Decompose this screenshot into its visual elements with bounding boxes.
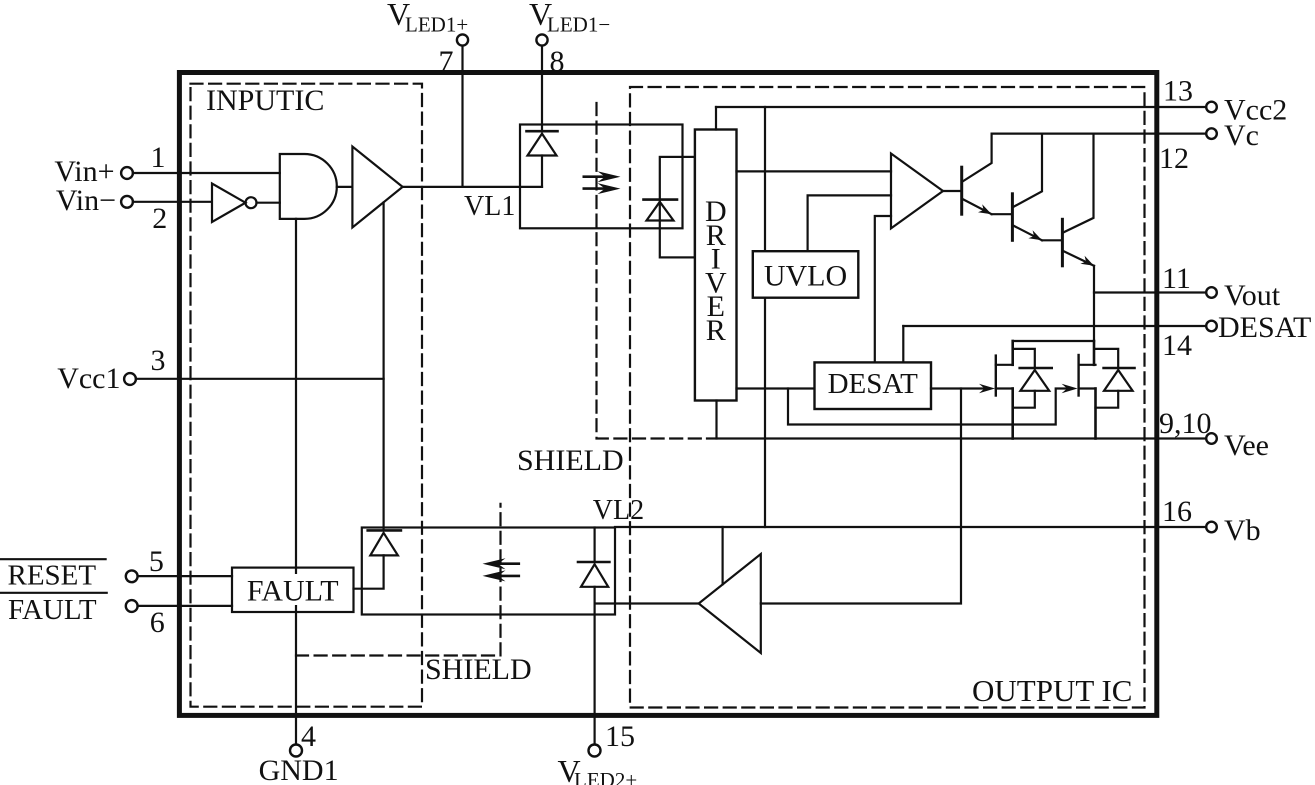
label Vin- bbox=[56, 184, 116, 217]
label pin number 4 bbox=[301, 720, 316, 753]
svg-text:LED1+: LED1+ bbox=[405, 13, 468, 37]
label pin number 16 bbox=[1162, 495, 1192, 528]
label pin number 7 bbox=[439, 45, 454, 78]
wire UVLO second input bbox=[808, 195, 891, 251]
package case outline bbox=[179, 73, 1156, 716]
wire Vcc1 net bbox=[136, 378, 384, 380]
svg-text:6: 6 bbox=[150, 606, 165, 639]
label Vb bbox=[1224, 514, 1261, 547]
wire Vb rail bbox=[615, 526, 1205, 528]
svg-text:14: 14 bbox=[1162, 329, 1192, 362]
wire Vout pin line bbox=[1094, 291, 1205, 293]
svg-text:R: R bbox=[706, 314, 726, 347]
label FAULT with overline bbox=[0, 593, 107, 626]
svg-text:DESAT: DESAT bbox=[828, 368, 919, 400]
wire buffer tap down to LED2 bbox=[383, 203, 385, 531]
light arrow 4 bbox=[483, 570, 519, 581]
wire Vcc2 drop to UVLO bbox=[764, 107, 766, 251]
wire Vc bus bbox=[992, 133, 1205, 135]
wire pin8 VLED1- down to LED1 cathode bbox=[541, 46, 543, 132]
svg-text:9,10: 9,10 bbox=[1159, 407, 1212, 440]
wire gate loop to M2 bbox=[788, 384, 1078, 425]
optocoupler 1 body bbox=[520, 125, 683, 229]
svg-text:1: 1 bbox=[151, 141, 166, 174]
amp U4 bbox=[891, 154, 943, 229]
AND gate U1 bbox=[280, 154, 337, 219]
pin 11 terminal bbox=[1206, 287, 1217, 298]
LED D5 bbox=[368, 530, 401, 555]
svg-text:INPUTIC: INPUTIC bbox=[206, 84, 324, 117]
pin 4 terminal bbox=[290, 745, 302, 757]
wire driver output to amp bbox=[737, 170, 892, 172]
label pin number 3 bbox=[151, 344, 166, 377]
label RESET with overline bbox=[0, 559, 106, 591]
svg-text:Vin−: Vin− bbox=[56, 184, 116, 217]
svg-text:OUTPUT IC: OUTPUT IC bbox=[972, 673, 1132, 708]
OUTPUT IC dashed boundary bbox=[630, 87, 1145, 708]
LED D1 bbox=[527, 131, 558, 187]
wire pin2 Vin- to inverter bbox=[133, 201, 212, 203]
pin 8 terminal bbox=[536, 34, 547, 45]
wire GND1 vertical bbox=[295, 219, 297, 744]
svg-text:5: 5 bbox=[149, 545, 164, 578]
label VLED1- bbox=[529, 0, 610, 37]
label SHIELD upper bbox=[517, 444, 624, 477]
label SHIELD lower bbox=[425, 653, 532, 686]
wire pin1 Vin+ to AND gate bbox=[133, 172, 280, 174]
pin 6 terminal bbox=[126, 600, 138, 612]
photodetector box bbox=[660, 157, 695, 258]
body diode D3 bbox=[1013, 349, 1052, 408]
wire Vee bus bbox=[707, 437, 1205, 439]
svg-text:LED2+: LED2+ bbox=[574, 768, 637, 785]
wire AND output to buffer bbox=[337, 186, 353, 188]
pin 12 terminal bbox=[1206, 128, 1217, 139]
FAULT block bbox=[232, 568, 354, 612]
wire FAULT block to LED2 anode bbox=[354, 555, 384, 588]
transistor Q3 bbox=[1062, 134, 1094, 266]
svg-text:SHIELD: SHIELD bbox=[425, 653, 532, 686]
pin 7 terminal bbox=[457, 34, 468, 45]
MOSFET M2 bbox=[1079, 341, 1096, 439]
pin 16 terminal bbox=[1206, 522, 1217, 533]
label VLED1+ bbox=[387, 0, 468, 37]
svg-text:Vcc1: Vcc1 bbox=[57, 362, 120, 395]
INPUT IC dashed boundary bbox=[191, 84, 423, 707]
wire Q3 emitter to Vout and output stage bbox=[1093, 266, 1095, 341]
wire pin5 RESET to FAULT block bbox=[138, 575, 232, 577]
wire photodiode to pin15 bbox=[593, 587, 595, 744]
label pin number 8 bbox=[550, 45, 565, 78]
svg-text:11: 11 bbox=[1162, 262, 1191, 295]
label Vcc1 bbox=[57, 362, 120, 395]
light arrow 3 bbox=[483, 558, 519, 569]
svg-text:Vc: Vc bbox=[1224, 119, 1259, 152]
svg-text:LED1−: LED1− bbox=[547, 13, 610, 37]
svg-text:12: 12 bbox=[1159, 142, 1189, 175]
lower amp U5 bbox=[699, 554, 761, 653]
wire pin6 FAULT to FAULT block bbox=[138, 605, 232, 607]
svg-text:2: 2 bbox=[152, 202, 167, 235]
svg-text:8: 8 bbox=[550, 45, 565, 78]
label pin number 12 bbox=[1159, 142, 1189, 175]
svg-text:13: 13 bbox=[1163, 75, 1193, 108]
svg-text:SHIELD: SHIELD bbox=[517, 444, 624, 477]
label pin number 5 bbox=[149, 545, 164, 578]
label Vee bbox=[1224, 429, 1269, 462]
wire DESAT block to amp bbox=[875, 216, 891, 362]
light arrow 1 bbox=[584, 171, 621, 182]
wire pin7 VLED1+ down to VL1 node bbox=[461, 46, 463, 187]
svg-text:VL1: VL1 bbox=[464, 191, 515, 222]
wire driver top feed bbox=[715, 107, 717, 130]
pin 3 terminal bbox=[124, 373, 136, 385]
pin 9,10 terminal bbox=[1206, 433, 1217, 444]
pin 1 terminal bbox=[121, 167, 133, 179]
UVLO block bbox=[753, 251, 859, 298]
wire Vcc2 bus bbox=[716, 106, 1205, 108]
shield 1 dashed line bbox=[597, 103, 708, 439]
wire VL1 node bbox=[403, 186, 542, 188]
label pin number 14 bbox=[1162, 329, 1192, 362]
svg-text:UVLO: UVLO bbox=[764, 260, 847, 293]
wire UVLO to Vb rail bbox=[764, 298, 766, 527]
wire driver to DESAT block bbox=[737, 387, 815, 389]
wire DESAT output to M1 gate bbox=[931, 384, 995, 394]
wire lower amp output to LED bbox=[595, 602, 699, 604]
label VLED2+ bbox=[558, 753, 638, 785]
label pin number 9,10 bbox=[1159, 407, 1212, 440]
svg-text:GND1: GND1 bbox=[259, 754, 339, 785]
label VL2 bbox=[593, 495, 644, 526]
wire driver bottom to Vee bbox=[715, 401, 717, 439]
svg-text:Vb: Vb bbox=[1224, 514, 1261, 547]
svg-text:Vout: Vout bbox=[1224, 279, 1281, 312]
svg-text:RESET: RESET bbox=[8, 560, 97, 592]
label Vin+ bbox=[54, 155, 114, 188]
wire output stage drain rail bbox=[1013, 340, 1094, 342]
label Vout bbox=[1224, 279, 1281, 312]
wire Vb to lower amp bbox=[721, 527, 723, 584]
svg-text:FAULT: FAULT bbox=[247, 575, 339, 608]
driver block U6 bbox=[695, 130, 737, 401]
pin 5 terminal bbox=[126, 570, 138, 582]
transistor Q2 bbox=[1012, 134, 1061, 241]
label pin number 6 bbox=[150, 606, 165, 639]
label INPUT IC bbox=[206, 84, 324, 117]
label Vcc2 bbox=[1224, 94, 1287, 127]
label OUTPUT IC bbox=[972, 673, 1132, 708]
svg-text:7: 7 bbox=[439, 45, 454, 78]
wire DESAT block to pin14 riser bbox=[902, 326, 904, 362]
svg-text:Vee: Vee bbox=[1224, 429, 1269, 462]
svg-text:3: 3 bbox=[151, 344, 166, 377]
transistor Q1 bbox=[943, 134, 1011, 215]
photodiode D2 bbox=[644, 200, 678, 221]
svg-text:15: 15 bbox=[605, 720, 635, 753]
svg-text:FAULT: FAULT bbox=[8, 594, 97, 626]
label pin number 15 bbox=[605, 720, 635, 753]
MOSFET M1 bbox=[996, 341, 1013, 439]
wire DESAT pin line bbox=[903, 325, 1205, 327]
body diode D4 bbox=[1096, 349, 1135, 408]
shield 2 dashed line bbox=[296, 504, 501, 656]
photodiode D6 bbox=[578, 528, 609, 587]
label pin number 2 bbox=[152, 202, 167, 235]
label pin number 13 bbox=[1163, 75, 1193, 108]
label Vc bbox=[1224, 119, 1259, 152]
buffer U3 bbox=[352, 147, 402, 228]
label pin number 11 bbox=[1162, 262, 1191, 295]
label DESAT pin bbox=[1218, 311, 1311, 344]
svg-text:DESAT: DESAT bbox=[1218, 311, 1311, 344]
pin 2 terminal bbox=[121, 196, 133, 208]
inverter U2 bbox=[212, 184, 280, 223]
pin 13 terminal bbox=[1206, 102, 1217, 113]
svg-text:4: 4 bbox=[301, 720, 316, 753]
label pin number 1 bbox=[151, 141, 166, 174]
svg-text:VL2: VL2 bbox=[593, 495, 644, 526]
pin 15 terminal bbox=[589, 745, 601, 757]
label GND1 bbox=[259, 754, 339, 785]
light arrow 2 bbox=[584, 183, 621, 194]
DESAT block bbox=[815, 362, 932, 409]
wire fault feedback to lower amp bbox=[761, 389, 961, 604]
pin 14 terminal bbox=[1206, 321, 1217, 332]
label VL1 bbox=[464, 191, 515, 222]
optocoupler 2 body bbox=[362, 528, 615, 615]
svg-text:16: 16 bbox=[1162, 495, 1192, 528]
